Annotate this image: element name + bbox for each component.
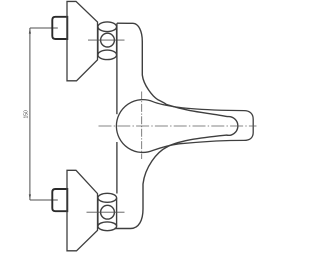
dome and handle outer silhouette <box>116 100 253 153</box>
faucet body left edge (lower) <box>116 142 118 194</box>
top nut <box>52 17 67 39</box>
top cone <box>67 1 98 80</box>
dimension line 150 <box>30 28 58 200</box>
dimension arrows <box>29 28 31 200</box>
top cylinder <box>98 22 117 60</box>
bottom cylinder <box>98 193 117 230</box>
faucet body with flares and inner lever outline <box>115 23 238 228</box>
bottom nut <box>52 189 67 211</box>
svg-text:150: 150 <box>23 110 29 119</box>
top cylinder axis <box>88 39 125 41</box>
faucet body left edge (upper) <box>116 23 118 114</box>
bottom cone <box>67 170 98 251</box>
main horizontal centerline <box>99 125 257 127</box>
vertical centerline <box>141 92 143 160</box>
bottom cylinder axis <box>87 211 125 213</box>
